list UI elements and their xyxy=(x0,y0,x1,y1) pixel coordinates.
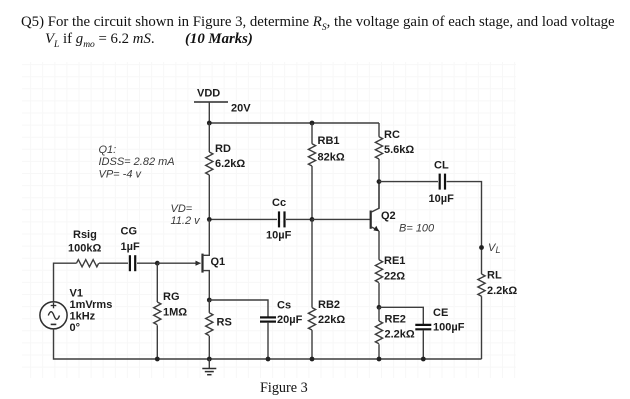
node RB1 top junction xyxy=(310,121,315,126)
node VL xyxy=(479,245,484,250)
svg-text:6.2kΩ: 6.2kΩ xyxy=(215,158,245,170)
node base bias junction xyxy=(310,217,315,222)
svg-text:VD=: VD= xyxy=(171,203,193,215)
svg-text:2.2kΩ: 2.2kΩ xyxy=(487,285,517,297)
svg-text:CG: CG xyxy=(121,226,138,238)
resistor RB1 xyxy=(308,144,315,166)
node CE bottom xyxy=(421,357,426,362)
node RS bottom xyxy=(207,357,212,362)
svg-text:V1: V1 xyxy=(70,288,83,300)
wire source node to Cs xyxy=(209,300,268,317)
svg-text:1µF: 1µF xyxy=(121,241,140,253)
transistor Q2 xyxy=(371,208,379,231)
wire source node to RS xyxy=(208,300,210,313)
svg-text:Q2: Q2 xyxy=(381,210,396,222)
svg-text:RC: RC xyxy=(384,129,400,141)
wire CL to right edge and down xyxy=(447,182,482,274)
wire RB2 from base node to bottom rail xyxy=(311,219,313,307)
wire Q2 emitter down to RE1 xyxy=(378,231,380,260)
problem statement line 2 xyxy=(45,31,155,50)
wire CG to gate node xyxy=(137,262,157,264)
svg-text:VDD: VDD xyxy=(197,88,220,100)
svg-text:2.2kΩ: 2.2kΩ xyxy=(385,329,415,341)
wire CE to bottom rail xyxy=(422,330,424,359)
resistor RB2 xyxy=(308,308,315,330)
resistor RS xyxy=(206,313,213,336)
node Cs bottom xyxy=(266,357,271,362)
wire Rsig to CG xyxy=(99,262,128,264)
wire drain node to Cc xyxy=(209,218,277,220)
wire RE node to CE xyxy=(379,307,423,324)
resistor Rsig xyxy=(77,260,99,267)
wire RC to collector node xyxy=(378,159,380,208)
wire RE2 to bottom rail xyxy=(378,344,380,359)
svg-text:VP= -4 v: VP= -4 v xyxy=(99,168,143,180)
svg-text:82kΩ: 82kΩ xyxy=(318,152,345,164)
caption Figure 3 xyxy=(260,380,308,397)
resistor RE1 xyxy=(375,260,382,283)
node RG bottom xyxy=(155,357,160,362)
svg-text:0°: 0° xyxy=(70,322,81,334)
svg-text:RL: RL xyxy=(487,270,502,282)
svg-text:Cs: Cs xyxy=(277,300,291,312)
wire V1 top to input xyxy=(54,263,77,302)
svg-text:CL: CL xyxy=(434,160,449,172)
svg-text:Cc: Cc xyxy=(272,197,286,209)
node collector junction xyxy=(377,179,382,184)
node source junction xyxy=(207,298,212,303)
svg-text:1MΩ: 1MΩ xyxy=(163,307,187,319)
svg-text:Rsig: Rsig xyxy=(73,229,97,241)
wire gate node to Q1 gate arrow xyxy=(157,262,196,264)
svg-text:RS: RS xyxy=(217,317,232,329)
svg-text:20µF: 20µF xyxy=(277,314,303,326)
svg-text:20V: 20V xyxy=(231,103,251,115)
transistor Q1 (JFET) xyxy=(196,219,210,300)
svg-text:B= 100: B= 100 xyxy=(399,223,435,235)
svg-text:5.6kΩ: 5.6kΩ xyxy=(384,144,414,156)
wire RE1 to RE node xyxy=(378,283,380,307)
svg-text:22kΩ: 22kΩ xyxy=(318,314,345,326)
node gate junction xyxy=(155,261,160,266)
svg-text:10µF: 10µF xyxy=(429,193,455,205)
wire Q2 collector up xyxy=(378,182,380,209)
svg-text:11.2 v: 11.2 v xyxy=(171,215,202,227)
node RE junction xyxy=(377,305,382,310)
wire VDD bar to top rail xyxy=(208,102,210,123)
wire Cc to base node xyxy=(286,218,312,220)
svg-text:RE1: RE1 xyxy=(384,255,405,267)
wire Cs to bottom rail xyxy=(267,322,269,359)
svg-text:CE: CE xyxy=(433,307,448,319)
svg-text:1kHz: 1kHz xyxy=(70,311,96,323)
wire RL to bottom rail xyxy=(481,296,483,359)
wire collector node to CL xyxy=(379,181,438,183)
VDD supply bar xyxy=(194,101,228,103)
svg-text:10µF: 10µF xyxy=(266,230,292,242)
resistor RL xyxy=(478,274,485,296)
wire RE2 top stub xyxy=(378,307,380,321)
wire RG from gate node to bottom rail xyxy=(156,263,158,302)
svg-text:RE2: RE2 xyxy=(385,314,406,326)
wire RD to drain node xyxy=(208,175,210,219)
problem statement marks xyxy=(185,31,253,48)
svg-text:Q1:: Q1: xyxy=(99,144,117,156)
svg-text:RB2: RB2 xyxy=(318,299,340,311)
faint schematic grid xyxy=(22,62,516,378)
svg-text:1mVrms: 1mVrms xyxy=(70,299,113,311)
wire rail to RB1 xyxy=(311,123,313,144)
svg-text:100µF: 100µF xyxy=(433,322,465,334)
resistor RG xyxy=(154,302,161,325)
capacitor CL xyxy=(440,174,445,190)
capacitor Cs xyxy=(260,317,276,321)
wire rail corner to RC xyxy=(378,123,380,137)
wire RB2 bottom xyxy=(311,330,313,359)
capacitor Cc xyxy=(279,211,285,227)
svg-text:RG: RG xyxy=(163,291,180,303)
wire bottom rail xyxy=(54,329,482,359)
svg-text:22Ω: 22Ω xyxy=(384,271,405,283)
svg-text:RD: RD xyxy=(215,143,231,155)
resistor RC xyxy=(375,137,382,159)
svg-text:IDSS= 2.82 mA: IDSS= 2.82 mA xyxy=(99,156,175,168)
problem statement line 1 xyxy=(21,14,615,33)
wire RS to bottom rail xyxy=(208,336,210,359)
svg-text:L: L xyxy=(496,245,501,255)
ground xyxy=(202,359,216,375)
capacitor CE xyxy=(415,325,431,329)
capacitor CG xyxy=(130,255,135,271)
svg-text:RB1: RB1 xyxy=(318,135,340,147)
wire top rail xyxy=(209,122,379,124)
svg-text:100kΩ: 100kΩ xyxy=(68,243,101,255)
node drain junction xyxy=(207,217,212,222)
wire RG bottom xyxy=(156,325,158,359)
wire rail to RD xyxy=(208,123,210,152)
source V1 xyxy=(40,302,67,329)
node VDD-rail junction xyxy=(207,121,212,126)
wire base node to Q2 base xyxy=(312,218,370,220)
wire RB1 to base node xyxy=(311,166,313,219)
resistor RD xyxy=(206,152,213,175)
resistor RE2 xyxy=(375,321,382,344)
node RB2 bottom xyxy=(310,357,315,362)
svg-text:Q1: Q1 xyxy=(211,256,226,268)
node RE2 bottom xyxy=(377,357,382,362)
